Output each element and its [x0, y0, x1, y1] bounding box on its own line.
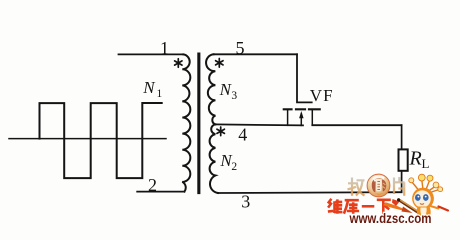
- legs: [420, 219, 429, 223]
- mascot pen: [399, 200, 417, 212]
- svg-text:2: 2: [148, 175, 157, 195]
- svg-text:1: 1: [160, 38, 169, 58]
- svg-text:2: 2: [231, 161, 237, 173]
- polarity dot N1: [175, 59, 182, 68]
- svg-text:www.dzsc.com: www.dzsc.com: [349, 211, 432, 226]
- polarity dot N3: [216, 59, 223, 68]
- mosfet substrate arrow head: [299, 111, 304, 118]
- wire pin2: [137, 191, 184, 193]
- winding N2 (pins 4-3): [210, 124, 218, 193]
- mosfet substrate arrow shaft: [300, 114, 302, 125]
- resistor RL body: [399, 149, 408, 170]
- svg-text:3: 3: [241, 192, 250, 212]
- svg-text:3: 3: [231, 90, 237, 102]
- winding N1 (primary, pins 1-2): [182, 54, 190, 191]
- watermark group: [328, 174, 448, 226]
- crown stalks and balls: [412, 180, 439, 193]
- svg-text:R: R: [409, 148, 422, 170]
- polarity dot N2: [217, 127, 224, 136]
- eyes: [415, 194, 421, 201]
- svg-text:5: 5: [236, 38, 245, 58]
- core line: [197, 54, 200, 193]
- wire drain from pin5: [297, 54, 312, 102]
- square-wave input signal: [40, 103, 162, 178]
- body: [417, 207, 431, 220]
- winding N3 (feedback, pins 5-4): [206, 54, 215, 124]
- wire source to RL: [312, 124, 401, 126]
- svg-text:N: N: [142, 78, 156, 97]
- svg-text:VF: VF: [310, 86, 334, 105]
- watermark char zhao: [348, 178, 365, 196]
- mosfet right leg (source): [311, 110, 313, 125]
- watermark text weikuyixia: [328, 199, 391, 214]
- wire RL bottom: [401, 171, 403, 192]
- right arm: [431, 206, 439, 209]
- head: [412, 188, 434, 210]
- transistor Q1 VF mosfet channel bars: [284, 108, 320, 110]
- mosfet left leg: [287, 110, 289, 125]
- watermark sphere logo: [367, 174, 390, 197]
- svg-text:1: 1: [157, 88, 163, 100]
- wire tap4 to gate: [215, 124, 303, 125]
- wire pin3 bottom: [218, 191, 402, 194]
- wire pin5: [214, 53, 297, 55]
- watermark swoosh arrow: [383, 202, 411, 212]
- watermark mascot: [397, 174, 448, 222]
- wire pin1: [119, 53, 184, 55]
- node axis (input waveform baseline): [9, 138, 166, 140]
- svg-text:4: 4: [238, 125, 247, 145]
- wire RL top: [401, 125, 403, 149]
- watermark char pian: [394, 177, 405, 196]
- svg-text:L: L: [422, 156, 430, 171]
